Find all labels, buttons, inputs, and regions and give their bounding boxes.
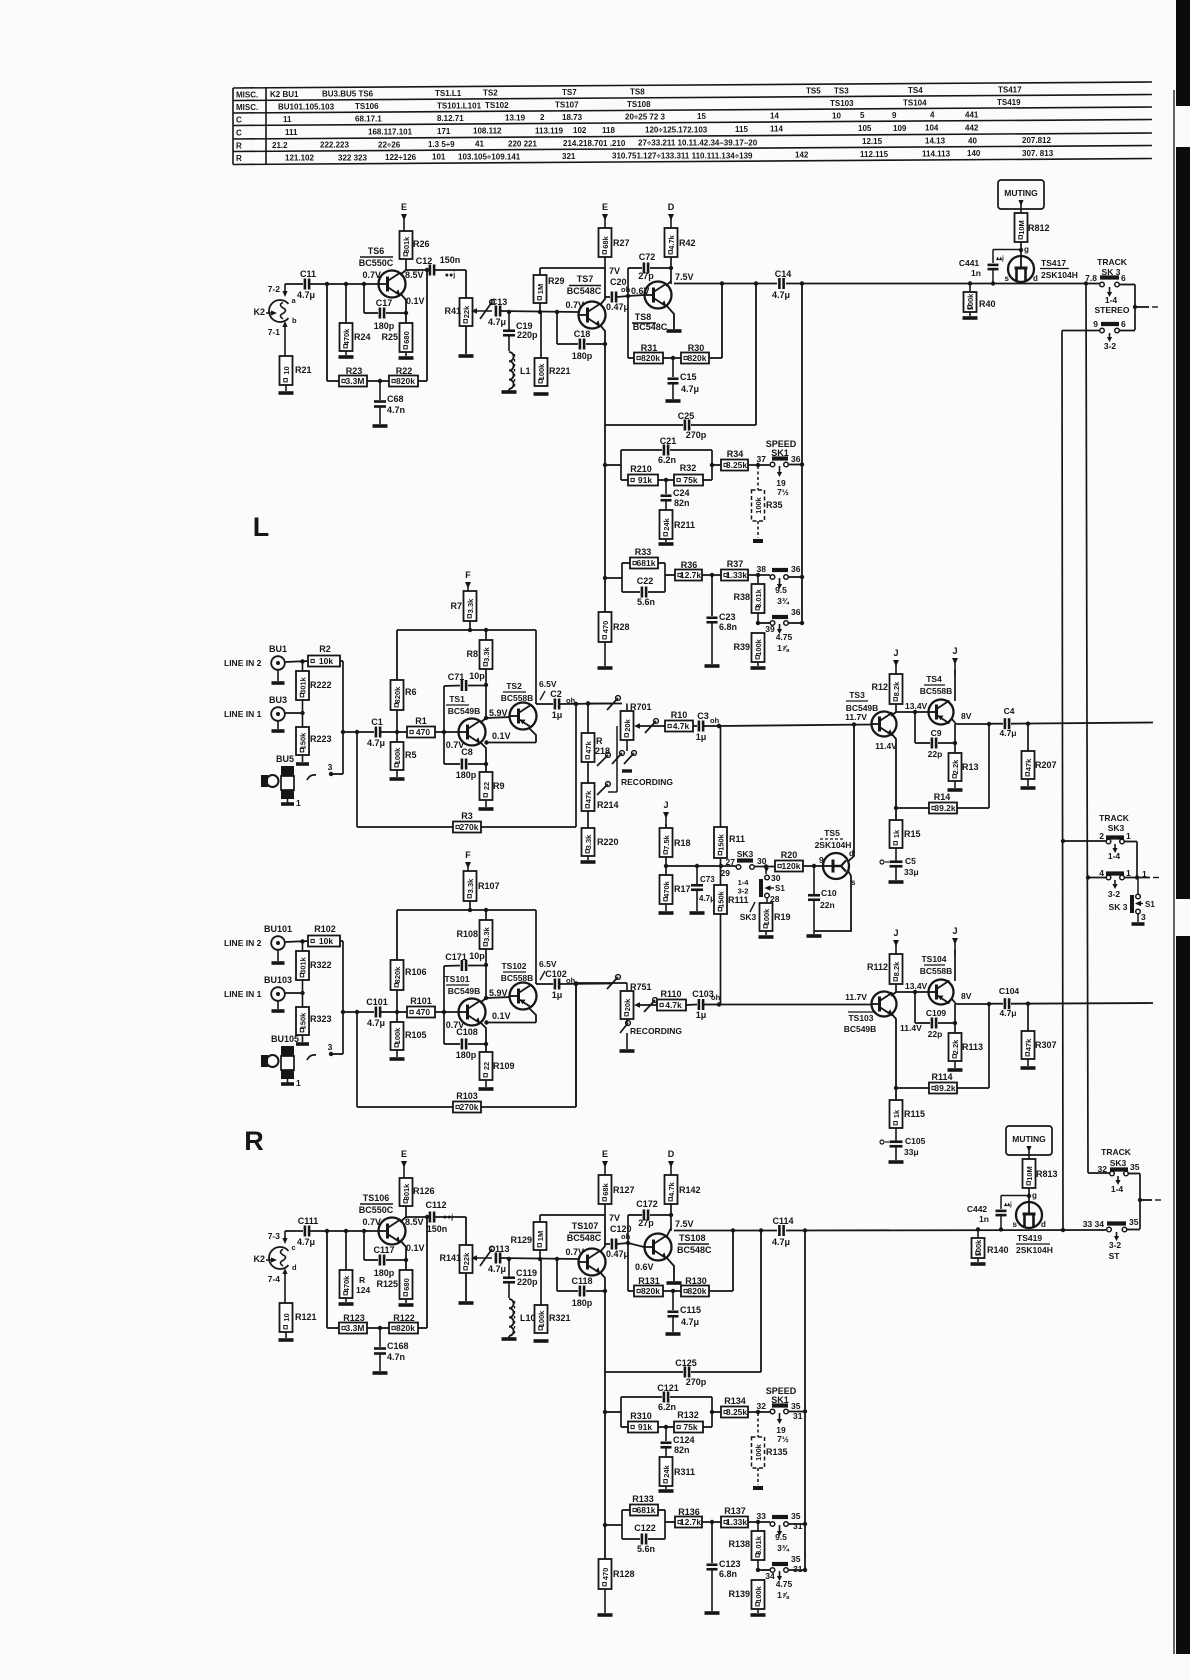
svg-text:LINE IN 2: LINE IN 2 (224, 658, 262, 668)
svg-text:114: 114 (770, 125, 783, 134)
svg-text:820k: 820k (396, 1323, 415, 1333)
potentiometer R41 (460, 298, 473, 326)
wiper arrow R41 (473, 310, 492, 312)
svg-text:27÷33.211 10.11.42.34–39.17–20: 27÷33.211 10.11.42.34–39.17–20 (638, 139, 758, 148)
svg-text:3¾: 3¾ (777, 1543, 790, 1553)
svg-text:C13: C13 (491, 297, 508, 307)
svg-text:10k: 10k (319, 936, 333, 946)
svg-text:10p: 10p (469, 671, 485, 681)
wire base bias column (326, 284, 328, 381)
svg-text:C441: C441 (959, 258, 980, 268)
svg-text:R106: R106 (405, 967, 427, 977)
resistor R136 (665, 1521, 675, 1523)
pot bottom wipers and RECORDING contact (626, 740, 628, 751)
svg-text:BC558B: BC558B (501, 693, 534, 703)
wire eq node upper (603, 1410, 607, 1414)
capacitor C24 (665, 480, 667, 494)
switch SK3 contact 28 (765, 893, 770, 898)
svg-text:3: 3 (328, 1042, 333, 1052)
svg-text:R21: R21 (295, 365, 312, 375)
svg-text:R: R (236, 154, 242, 163)
svg-text:8.5V: 8.5V (405, 1217, 424, 1227)
wiper arrow R701 mid (634, 723, 640, 729)
svg-text:BC558B: BC558B (920, 686, 953, 696)
svg-text:g: g (1024, 245, 1029, 254)
svg-text:9.5: 9.5 (775, 585, 787, 595)
svg-text:22÷26: 22÷26 (378, 140, 401, 149)
svg-text:10: 10 (282, 1313, 291, 1321)
wire BU3 to node (285, 992, 303, 994)
wire TS5 drain to L signal (848, 725, 854, 862)
svg-text:b: b (292, 316, 297, 325)
svg-text:3.3k: 3.3k (482, 926, 491, 941)
svg-text:C: C (236, 115, 242, 124)
svg-text:F: F (465, 570, 471, 580)
svg-text:C105: C105 (905, 1136, 926, 1146)
ground below R9 (485, 1080, 487, 1087)
svg-text:R129: R129 (510, 1235, 532, 1245)
ground below C5 (889, 880, 904, 884)
capacitor C8 (443, 732, 445, 764)
svg-text:C3: C3 (697, 711, 709, 721)
label S1 arrow (1136, 903, 1143, 905)
switch SK1 contact 33 (748, 1521, 770, 1523)
capacitor C112 (429, 1212, 432, 1223)
capacitor C17 (363, 284, 365, 313)
transistor TS103 label (848, 1011, 876, 1013)
svg-text:5: 5 (860, 111, 865, 120)
svg-text:6.8n: 6.8n (719, 622, 737, 632)
resistor R42 (665, 228, 678, 257)
svg-text:1: 1 (296, 1078, 301, 1088)
node R18/R17 (665, 857, 667, 875)
svg-text:270k: 270k (460, 822, 479, 832)
wire R22 to collector node (418, 380, 427, 382)
svg-text:10k: 10k (319, 656, 333, 666)
capacitor C168 (379, 1328, 381, 1347)
svg-text:4.7n: 4.7n (387, 1352, 405, 1362)
resistor R214 (587, 762, 589, 783)
resistor R115 (890, 1100, 903, 1128)
resistor R101 (397, 1011, 407, 1013)
svg-text:C172: C172 (636, 1199, 658, 1209)
svg-text:R19: R19 (774, 912, 791, 922)
tape head K2 (269, 300, 288, 322)
svg-text:124: 124 (356, 1285, 370, 1295)
wire left contact to bus (1062, 330, 1100, 332)
wire TS7 collector (600, 268, 605, 305)
resistor R8 (485, 630, 487, 640)
svg-text:R130: R130 (685, 1276, 707, 1286)
svg-text:441: 441 (965, 110, 979, 119)
svg-text:C101: C101 (366, 997, 388, 1007)
svg-text:3: 3 (1141, 912, 1146, 922)
svg-text:11.7V: 11.7V (845, 992, 867, 1002)
resistor R3 feedback (356, 732, 358, 827)
wire R22 to collector node (418, 1327, 427, 1329)
svg-text:6.5V: 6.5V (539, 679, 557, 689)
svg-text:R38: R38 (733, 592, 750, 602)
ground below R24 (345, 351, 347, 355)
svg-text:2SK104H: 2SK104H (815, 840, 852, 850)
svg-text:ST: ST (1109, 1251, 1121, 1261)
wire TS3 emitter (891, 1013, 896, 1100)
resistor R121 (280, 1303, 293, 1332)
wire TS8 collector (670, 257, 672, 284)
svg-text:120k: 120k (782, 861, 801, 871)
svg-text:13.4V: 13.4V (905, 701, 928, 711)
wire bias row (666, 865, 736, 867)
svg-text:C117: C117 (373, 1245, 394, 1255)
svg-text:100k: 100k (754, 1585, 763, 1603)
svg-text:R6: R6 (405, 687, 417, 697)
wire to bus 2 (1086, 875, 1090, 879)
svg-text:20k: 20k (623, 998, 632, 1011)
resistor R29 (539, 268, 541, 275)
svg-text:TS417: TS417 (1041, 258, 1066, 268)
resistor R12 (890, 674, 903, 704)
wire TS7 emitter (600, 325, 605, 344)
svg-text:R137: R137 (724, 1506, 746, 1516)
svg-text:13.4V: 13.4V (905, 981, 928, 991)
switch SK1 contact 34 (758, 1569, 770, 1571)
svg-text:470k: 470k (342, 1275, 351, 1293)
svg-text:TS2: TS2 (506, 681, 522, 691)
ground below R40 (969, 312, 971, 316)
svg-text:1: 1 (1126, 831, 1131, 841)
resistor R211 (665, 501, 667, 510)
ground TS8 emitter (667, 329, 682, 333)
svg-text:TS104: TS104 (903, 98, 927, 107)
svg-text:24k: 24k (662, 1464, 671, 1477)
ground below R13 (954, 781, 956, 788)
svg-text:8.2k: 8.2k (892, 961, 901, 976)
svg-text:K2: K2 (253, 307, 265, 317)
wire collector (405, 1206, 407, 1217)
svg-text:C8: C8 (461, 747, 473, 757)
svg-text:15: 15 (697, 112, 706, 121)
svg-text:TS1.L1: TS1.L1 (435, 89, 462, 98)
svg-text:R322: R322 (310, 960, 332, 970)
svg-text:C109: C109 (926, 1008, 947, 1018)
svg-text:RECORDING: RECORDING (621, 777, 673, 787)
svg-text:TS4: TS4 (908, 86, 923, 95)
switch position arrow (1109, 333, 1111, 338)
svg-text:3-2: 3-2 (1104, 341, 1117, 351)
svg-text:322 323: 322 323 (338, 153, 367, 162)
svg-text:R22: R22 (396, 366, 413, 376)
svg-text:R115: R115 (904, 1109, 925, 1119)
ground below R5 (396, 770, 398, 777)
resistor R2 (308, 656, 340, 667)
svg-text:R138: R138 (728, 1539, 750, 1549)
svg-text:TS103: TS103 (848, 1013, 873, 1023)
svg-text:68.17.1: 68.17.1 (355, 114, 382, 123)
wire R41 to ground (465, 1273, 467, 1301)
svg-text:6.8n: 6.8n (719, 1569, 737, 1579)
wire right contact loop (1119, 284, 1135, 286)
wire top rail (469, 621, 471, 630)
svg-text:BU101.105.103: BU101.105.103 (278, 102, 335, 111)
ground below S1 (1137, 914, 1139, 922)
resistor R40 (968, 281, 972, 285)
svg-text:36: 36 (791, 607, 801, 617)
svg-text:100k: 100k (754, 1443, 763, 1461)
wire C11 to base (310, 283, 378, 285)
wire R20 to gate (803, 865, 824, 867)
svg-text:150k: 150k (298, 1012, 307, 1030)
switch position arrow (1117, 1176, 1119, 1181)
resistor R114 (896, 1087, 929, 1089)
svg-text:1M: 1M (536, 284, 545, 294)
svg-text:oh: oh (710, 716, 720, 725)
wire to bus 1 (1061, 839, 1065, 843)
switch SK3 wafer bar (759, 879, 763, 897)
svg-text:C118: C118 (571, 1276, 592, 1286)
fet TS419 (1016, 1202, 1042, 1228)
svg-text:TS3: TS3 (834, 86, 849, 95)
wire TS2 base (486, 717, 510, 718)
resistor R105 (396, 1012, 398, 1022)
resistor R127 (599, 1175, 612, 1204)
fet TS417 (1008, 256, 1034, 282)
svg-text:120÷125.172.103: 120÷125.172.103 (645, 126, 708, 135)
svg-text:4.7μ: 4.7μ (681, 1317, 699, 1327)
wire BU1 to R2 (285, 941, 308, 942)
wire C13 to TS7 base (501, 1258, 578, 1259)
resistor R223 (296, 727, 309, 755)
wire TS3 emitter (891, 733, 896, 820)
svg-text:180p: 180p (456, 770, 477, 780)
resistor R220 (587, 811, 589, 828)
svg-text:TS106: TS106 (363, 1193, 390, 1203)
ground TS8 emitter (667, 1281, 682, 1285)
svg-text:3.01k: 3.01k (754, 588, 763, 608)
svg-text:R32: R32 (680, 463, 697, 473)
svg-text:D: D (668, 202, 675, 212)
svg-text:150k: 150k (298, 732, 307, 750)
svg-text:37: 37 (757, 454, 767, 464)
svg-text:C112: C112 (425, 1200, 446, 1210)
svg-text:11.4V: 11.4V (875, 741, 897, 751)
svg-text:TRACK: TRACK (1099, 813, 1130, 823)
svg-text:8.2k: 8.2k (892, 681, 901, 696)
svg-text:TS104: TS104 (921, 954, 946, 964)
capacitor C1 (343, 731, 374, 733)
capacitor C73 (696, 866, 698, 884)
ground below L1 (502, 1337, 517, 1341)
svg-text:R25: R25 (381, 332, 398, 342)
wire C13 to TS7 base (501, 311, 578, 312)
wire eq node lower (603, 576, 607, 580)
wire to bus 2 (1088, 1172, 1110, 1174)
svg-text:C: C (236, 128, 242, 137)
svg-text:C108: C108 (456, 1027, 478, 1037)
svg-text:R3: R3 (461, 811, 473, 821)
wire R30 to output (709, 1290, 733, 1292)
resistor R142 (665, 1175, 678, 1204)
svg-text:108.112: 108.112 (473, 127, 502, 136)
svg-text:8V: 8V (961, 991, 972, 1001)
svg-text:C73: C73 (700, 875, 715, 884)
svg-text:301k: 301k (298, 676, 307, 694)
resistor R812 (1015, 213, 1028, 242)
resistor R122 (367, 1327, 389, 1329)
svg-text:100k: 100k (974, 1239, 983, 1257)
svg-text:4.7μ: 4.7μ (367, 1018, 385, 1028)
svg-text:4.75: 4.75 (776, 632, 793, 642)
switch position arrow (779, 1413, 781, 1420)
svg-text:91k: 91k (638, 1422, 652, 1432)
resistor R21 (280, 356, 293, 385)
transistor TS6 (379, 271, 406, 298)
svg-text:R23: R23 (346, 366, 363, 376)
svg-text:R121: R121 (295, 1312, 317, 1322)
capacitor C119 (508, 1259, 510, 1277)
ground below R19 (765, 931, 767, 935)
svg-text:680: 680 (402, 1278, 411, 1291)
svg-text:R142: R142 (679, 1185, 701, 1195)
svg-text:BU1: BU1 (269, 644, 287, 654)
svg-text:C25: C25 (678, 411, 695, 421)
wire collector node (895, 984, 897, 992)
svg-text:0.7V: 0.7V (362, 270, 381, 280)
svg-text:4.7μ: 4.7μ (488, 317, 506, 327)
svg-text:4.7μ: 4.7μ (772, 290, 790, 300)
wire vertical to eq network (604, 344, 606, 425)
capacitor C103 (686, 1004, 697, 1007)
svg-text:R41: R41 (444, 306, 461, 316)
svg-text:1μ: 1μ (552, 710, 563, 720)
svg-text:LINE IN 1: LINE IN 1 (224, 709, 262, 719)
svg-text:142: 142 (795, 150, 809, 159)
svg-text:100k: 100k (393, 747, 402, 765)
svg-text:113.119: 113.119 (535, 126, 564, 135)
svg-text:TS8: TS8 (635, 312, 652, 322)
svg-text:R126: R126 (413, 1186, 435, 1196)
svg-text:J: J (663, 800, 668, 810)
svg-text:4.7μ: 4.7μ (772, 1237, 790, 1247)
svg-text:1.3 5÷9: 1.3 5÷9 (428, 140, 455, 149)
wire TS4 emitter to R13 (954, 1004, 956, 1033)
svg-text:100k: 100k (762, 908, 771, 926)
svg-text:R10: R10 (671, 710, 688, 720)
svg-text:6: 6 (1121, 319, 1126, 329)
svg-text:TRACK: TRACK (1101, 1147, 1132, 1157)
svg-text:C21: C21 (660, 436, 677, 446)
svg-text:105: 105 (858, 124, 872, 133)
svg-text:3.3M: 3.3M (346, 1323, 365, 1333)
svg-text:TS417: TS417 (998, 85, 1022, 94)
svg-text:TS4: TS4 (926, 674, 942, 684)
svg-text:220p: 220p (517, 1277, 538, 1287)
svg-text:1μ: 1μ (552, 990, 563, 1000)
svg-text:35: 35 (1130, 1162, 1140, 1172)
svg-text:22p: 22p (928, 1029, 943, 1039)
svg-text:7.5V: 7.5V (675, 1219, 694, 1229)
resistor R128 (604, 1372, 606, 1559)
wire TS7 collector (600, 1215, 605, 1252)
wire TS1 collector node (485, 685, 487, 718)
wire to R751 (576, 982, 627, 984)
svg-text:R102: R102 (314, 924, 336, 934)
svg-text:C104: C104 (999, 986, 1020, 996)
inductor L101 (508, 1282, 510, 1298)
svg-text:C113: C113 (488, 1244, 509, 1254)
svg-text:4.7μ: 4.7μ (681, 384, 699, 394)
capacitor C21 (621, 449, 662, 451)
svg-text:10M: 10M (1017, 220, 1026, 235)
resistor R27 (599, 228, 612, 257)
wire main output L head amp (674, 283, 777, 285)
resistor R113 (949, 1033, 962, 1061)
resistor R10 (665, 721, 693, 732)
ground below R751 (620, 1049, 635, 1053)
wire to R29 (540, 1214, 605, 1216)
svg-text:118: 118 (602, 126, 615, 135)
svg-text:R39: R39 (733, 642, 750, 652)
svg-text:47k: 47k (1024, 1038, 1033, 1051)
svg-text:1: 1 (1126, 868, 1131, 878)
svg-text:0.47μ: 0.47μ (606, 302, 629, 312)
resistor R310 (621, 1426, 628, 1428)
svg-text:R221: R221 (549, 366, 571, 376)
wire TS5 source to ground (814, 871, 851, 932)
resistor 470k (345, 284, 347, 323)
svg-text:820k: 820k (393, 966, 402, 984)
wire TS8 emitter to ground (666, 305, 674, 329)
svg-text:R323: R323 (310, 1014, 332, 1024)
wire collector node (895, 704, 897, 712)
svg-text:2.2k: 2.2k (951, 759, 960, 774)
ground below R24 (345, 1298, 347, 1302)
svg-text:4.7n: 4.7n (387, 405, 405, 415)
svg-text:R813: R813 (1036, 1169, 1058, 1179)
svg-text:3.01k: 3.01k (754, 1535, 763, 1555)
svg-text:SK 3: SK 3 (1109, 902, 1128, 912)
wire main L to TS3 (719, 725, 872, 727)
capacitor C441 (988, 264, 999, 267)
svg-text:C1: C1 (371, 717, 383, 727)
svg-text:35: 35 (1129, 1217, 1139, 1227)
svg-text:31: 31 (793, 1521, 803, 1531)
svg-text:100k: 100k (966, 293, 975, 311)
wire TS2 base (486, 997, 510, 998)
svg-text:0.7V: 0.7V (362, 1217, 381, 1227)
svg-text:11: 11 (283, 115, 292, 124)
resistor R17 (660, 875, 673, 904)
svg-text:R7: R7 (450, 601, 462, 611)
svg-text:R131: R131 (638, 1276, 660, 1286)
svg-text:BU103: BU103 (264, 975, 292, 985)
resistor R5 (396, 732, 398, 742)
svg-text:R5: R5 (405, 750, 417, 760)
svg-text:10: 10 (282, 366, 291, 374)
svg-text:34: 34 (765, 1571, 775, 1581)
ground below C15 (666, 1332, 681, 1336)
svg-text:2SK104H: 2SK104H (1041, 270, 1078, 280)
svg-text:LINE IN 2: LINE IN 2 (224, 938, 262, 948)
svg-text:J: J (893, 928, 898, 938)
svg-text:SK1: SK1 (771, 1395, 789, 1405)
svg-text:C9: C9 (931, 728, 942, 738)
svg-text:R112: R112 (867, 962, 888, 972)
transistor TS108 (645, 1234, 672, 1261)
scan artifact black bar top-right (1176, 0, 1190, 106)
svg-text:R26: R26 (413, 239, 430, 249)
resistor R26 (400, 231, 413, 259)
svg-text:1: 1 (1142, 869, 1147, 879)
